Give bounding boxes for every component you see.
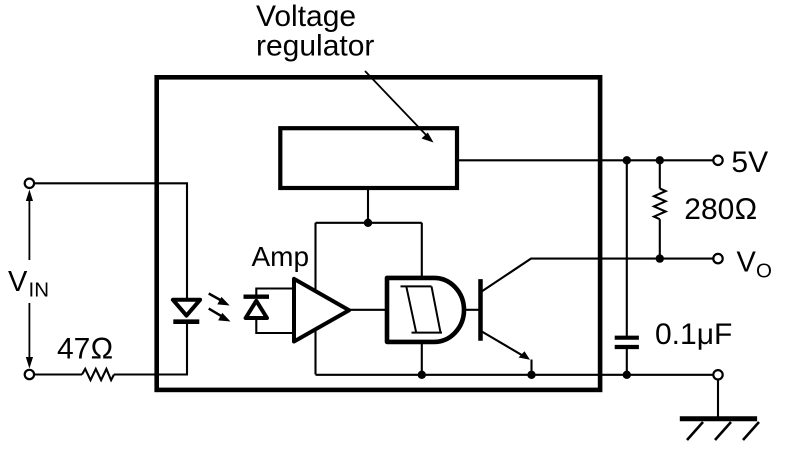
svg-text:Voltage: Voltage xyxy=(256,0,356,33)
svg-text:280Ω: 280Ω xyxy=(684,193,757,226)
svg-text:regulator: regulator xyxy=(256,29,374,62)
svg-text:IN: IN xyxy=(29,279,50,302)
svg-text:O: O xyxy=(756,259,772,282)
svg-text:Amp: Amp xyxy=(252,241,310,272)
svg-text:0.1μF: 0.1μF xyxy=(655,318,732,351)
svg-text:47Ω: 47Ω xyxy=(57,333,113,366)
svg-text:V: V xyxy=(8,266,28,298)
svg-text:5V: 5V xyxy=(731,146,768,179)
svg-text:V: V xyxy=(737,247,757,279)
